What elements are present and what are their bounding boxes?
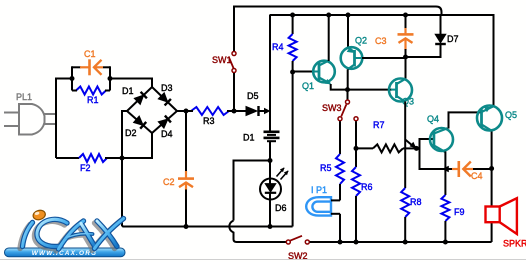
transistor Q3 — [389, 79, 412, 102]
wire plug to C1/R1 node — [56, 79, 72, 159]
wire V+ rail down to battery — [269, 15, 271, 131]
svg-text:Q1: Q1 — [302, 81, 314, 91]
wire bridge right vertex out — [177, 110, 186, 112]
wire to bridge top — [110, 79, 152, 88]
wire LED to left rail — [269, 193, 271, 227]
switch SW3 common contact — [346, 100, 350, 104]
wire Q4 base jog — [416, 139, 434, 148]
page divider line — [0, 259, 526, 261]
wire Q1 emitter to Q3 base — [331, 84, 392, 90]
svg-text:C3: C3 — [375, 36, 387, 46]
transistor Q5 — [477, 106, 502, 131]
switch SW1 upper contact — [232, 52, 236, 56]
switch SW3 right throw — [354, 117, 358, 121]
svg-text:F9: F9 — [454, 207, 465, 217]
diode D5 — [246, 107, 257, 116]
svg-text:R4: R4 — [272, 42, 284, 52]
svg-text:D3: D3 — [161, 83, 173, 93]
fuse F9 — [441, 195, 449, 221]
svg-text:F2: F2 — [80, 163, 91, 173]
node C4/right rail — [489, 166, 494, 171]
wire C1/R1 right side — [109, 66, 111, 90]
wire D7 top lead — [440, 16, 442, 35]
svg-text:PL1: PL1 — [16, 92, 32, 102]
wire Q2 base to C3/D7 node — [362, 57, 406, 59]
svg-text:C1: C1 — [84, 49, 96, 59]
wire D5 lead right — [260, 110, 267, 112]
wire C2 top lead — [185, 111, 187, 172]
plug PL1 body — [19, 104, 45, 135]
svg-text:SW1: SW1 — [212, 55, 232, 65]
svg-text:D1: D1 — [122, 86, 134, 96]
node C2 bottom — [184, 224, 189, 229]
wire right rail upper (to Q5 collector) — [493, 14, 495, 106]
wire to SW3 common — [347, 90, 349, 100]
switch SW2 blade — [290, 236, 302, 241]
switch SW1 blade — [229, 58, 234, 71]
transistor Q1 — [313, 61, 335, 83]
wire Q2 emitter lead — [347, 15, 349, 47]
switch SW1 lower contact — [232, 69, 236, 73]
plug PL1 stub lower — [44, 123, 56, 125]
wire Q2 collector down — [347, 69, 349, 89]
wire C4 to right rail — [473, 168, 492, 170]
wire Q3 emitter arrow to node — [405, 140, 412, 146]
wire C2 bottom lead — [185, 190, 187, 227]
wire C1 branch right — [103, 66, 110, 68]
svg-text:D1: D1 — [243, 133, 255, 143]
wire second rail (V+) — [270, 14, 494, 16]
wire bridge left vertex down — [122, 111, 127, 158]
wire C3 top lead — [405, 15, 407, 29]
junction arrow at battery column — [264, 108, 271, 114]
switch SW3 left throw — [338, 117, 342, 121]
wire R7 lead left — [356, 147, 373, 149]
node lamp/bottom rail — [338, 240, 343, 245]
LED D6 triangle — [265, 184, 276, 192]
resistor R4 — [289, 34, 297, 61]
node C3 top — [403, 13, 408, 18]
svg-text:Q4: Q4 — [427, 114, 439, 124]
LED D6 circle — [260, 179, 281, 200]
resistor R8 — [401, 188, 409, 217]
svg-text:WWW.ICAX.ORG: WWW.ICAX.ORG — [32, 250, 97, 257]
wire Q1 collector — [328, 15, 330, 61]
resistor R1 — [76, 87, 106, 95]
wire R6 top lead — [355, 148, 357, 167]
wire SW1 upper — [233, 6, 235, 52]
diode D3 (bridge) — [158, 93, 167, 102]
svg-text:R6: R6 — [361, 182, 373, 192]
svg-text:SW3: SW3 — [322, 103, 342, 113]
node R4/Q1-base — [290, 70, 295, 75]
node SW1/R3/D5 — [232, 109, 237, 114]
node R4 top — [290, 13, 295, 18]
wire battery to D6 node — [269, 141, 271, 160]
LED D6 arrows — [277, 168, 289, 180]
svg-text:I P1: I P1 — [311, 185, 327, 195]
wire crossover jog to SW2 — [229, 221, 286, 243]
wire R8 to bottom rail — [404, 217, 406, 242]
wire R3 lead left — [186, 110, 193, 112]
wire lamp stub upper — [331, 199, 340, 201]
node R6/bottom rail — [354, 240, 359, 245]
diode D4 (bridge) — [158, 119, 168, 128]
svg-text:D6: D6 — [275, 203, 287, 213]
wire D7 bottom to C3 node — [406, 44, 441, 57]
wire F9 to bottom rail — [444, 221, 446, 242]
node C1/R1 left — [70, 76, 75, 81]
svg-text:D7: D7 — [447, 34, 459, 44]
transistor Q4 — [430, 128, 453, 151]
wire lamp stub lower — [331, 213, 340, 215]
wire R4 top lead — [292, 15, 294, 34]
switch SW2 left contact — [286, 240, 290, 244]
node R6/R7 — [354, 146, 359, 151]
svg-text:D4: D4 — [161, 129, 173, 139]
node C1/R1 right — [108, 76, 113, 81]
svg-text:R7: R7 — [373, 120, 385, 130]
svg-text:R8: R8 — [410, 197, 422, 207]
fuse F2 — [79, 154, 107, 162]
plug PL1 stub upper — [44, 113, 56, 115]
capacitor C4 — [452, 168, 458, 170]
svg-text:D2: D2 — [125, 128, 137, 138]
node Q3e/R7/Q4b — [414, 146, 419, 151]
wire R3 lead right — [227, 110, 234, 112]
logo iCAX letters — [20, 209, 124, 251]
arrow into C4 line — [442, 166, 449, 172]
speaker SPKR — [486, 207, 500, 223]
wire R6 to bottom rail — [355, 196, 357, 242]
node R8/bottom rail — [403, 240, 408, 245]
plug PL1 prong upper — [4, 112, 19, 114]
node battery/D6/SW2-branch — [268, 158, 273, 163]
wire node to C4 — [420, 148, 454, 169]
svg-text:R3: R3 — [203, 116, 215, 126]
wire Q4 collector to Q5 base — [449, 112, 482, 128]
transistor Q2 — [341, 47, 363, 69]
switch SW2 right contact — [305, 240, 309, 244]
svg-text:R5: R5 — [320, 163, 332, 173]
diode D1 (bridge) — [134, 95, 143, 104]
wire top rail — [234, 6, 436, 8]
node Q2 emitter rail — [346, 13, 351, 18]
capacitor C1 — [80, 66, 89, 68]
wire C1 branch left — [72, 66, 81, 68]
wire Q3 emitter / R8 column — [404, 102, 406, 189]
wire SW3 right throw down — [355, 121, 357, 148]
node C3/D7/Q2b/Q3c — [403, 55, 408, 60]
wire right rail lower — [491, 131, 493, 242]
wire C1/R1 left side — [71, 66, 73, 90]
node Q1 collector rail — [326, 13, 331, 18]
battery D1 — [264, 131, 280, 134]
resistor R7 — [373, 144, 403, 152]
wire D6-node to SW2 branch — [234, 161, 271, 221]
wire F2 lead left — [56, 157, 79, 159]
wire R4 node down to left rail — [292, 72, 294, 227]
wire D5 lead left — [234, 110, 246, 112]
svg-text:C4: C4 — [471, 171, 483, 181]
resistor R5 — [336, 154, 344, 184]
svg-text:SPKR: SPKR — [503, 239, 526, 249]
wire R4 bottom lead — [292, 61, 294, 72]
wire R1 lead right — [105, 90, 110, 92]
wire C3 bottom lead — [405, 49, 407, 57]
diode D7 — [435, 34, 446, 43]
wire left bottom rail — [122, 157, 293, 227]
wire into LED — [269, 161, 271, 184]
wire Q3 collector — [405, 57, 407, 79]
svg-text:R1: R1 — [87, 95, 99, 105]
plug PL1 prong lower — [4, 125, 19, 127]
node F2/bridge — [120, 156, 125, 161]
svg-text:Q3: Q3 — [402, 97, 414, 107]
node Q1e/Q2c/Q3b/SW3 — [345, 87, 350, 92]
svg-text:C2: C2 — [163, 177, 175, 187]
diode D2 (bridge) — [134, 116, 144, 125]
svg-text:D5: D5 — [247, 91, 259, 101]
svg-text:Q5: Q5 — [505, 110, 517, 120]
wire top rail corner into second rail — [436, 7, 442, 16]
logo banner www.icax.org — [5, 248, 126, 257]
bridge diamond wires — [127, 87, 177, 133]
capacitor C3 — [404, 28, 406, 33]
wire lamp to bottom rail — [339, 214, 341, 242]
wire Q4 emitter down — [444, 152, 446, 170]
node C2 top tap — [184, 109, 189, 114]
lamp LP1 — [306, 197, 331, 215]
wire R5 to lamp — [339, 184, 341, 200]
wire SW1 to R3/D5 node — [233, 73, 235, 111]
resistor R6 — [352, 167, 360, 196]
wire F2 lead right — [105, 157, 122, 159]
wire bridge bottom to F2 node — [122, 133, 152, 158]
node F9/bottom rail — [443, 240, 448, 245]
wire bottom rail — [310, 241, 492, 243]
wire Q1 base lead — [293, 71, 314, 73]
capacitor C2 — [185, 171, 187, 178]
LED D6 cathode bar — [265, 192, 276, 194]
wire R7 lead right — [403, 147, 416, 149]
wire F9 top lead — [444, 169, 446, 195]
node LED/left rail — [268, 224, 273, 229]
resistor R3 — [191, 107, 229, 115]
switch SW3 blade — [341, 105, 346, 117]
wire R1 lead left — [72, 90, 77, 92]
svg-text:Q2: Q2 — [355, 36, 367, 46]
wire SW3 to R5 — [339, 121, 341, 154]
